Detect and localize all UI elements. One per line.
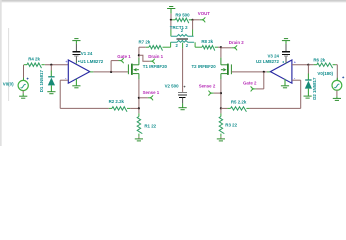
wire Drain 2 stub bbox=[221, 47, 234, 49]
pin Drain 2 bbox=[234, 46, 237, 50]
label T1 IRFBF20 bbox=[143, 64, 168, 69]
canvas edge line bbox=[8, 28, 10, 101]
battery V2 plus mark bbox=[184, 86, 186, 88]
wire V5 bottom lead bbox=[336, 90, 338, 98]
wire ground to V1 bbox=[75, 41, 77, 51]
op-amp U1 bbox=[65, 60, 90, 83]
wire U2 feedback vertical bbox=[300, 80, 302, 108]
wire T2 drain down bbox=[220, 47, 222, 57]
resistor R5 bbox=[221, 107, 301, 112]
junction Sense 1 bbox=[138, 97, 140, 99]
svg-text:D1 1N5817: D1 1N5817 bbox=[39, 70, 44, 93]
svg-text:R8 2k: R8 2k bbox=[201, 39, 213, 44]
svg-text:Gate 2: Gate 2 bbox=[243, 81, 257, 86]
svg-text:T1 IRFBF20: T1 IRFBF20 bbox=[143, 64, 168, 69]
pin Gate 1 bbox=[121, 58, 124, 62]
label R7 2k bbox=[139, 39, 151, 44]
source V0 sine mark bbox=[21, 84, 26, 88]
ground under U2 bbox=[281, 86, 289, 88]
junction Drain 1 bbox=[138, 54, 140, 56]
svg-text:V1 24: V1 24 bbox=[81, 51, 93, 56]
svg-text:R4 2k: R4 2k bbox=[28, 56, 40, 61]
pin VOUT bbox=[202, 18, 205, 22]
label Drain 2 bbox=[229, 40, 244, 45]
label TRCT1 bbox=[170, 25, 188, 30]
label Drain 1 bbox=[148, 54, 163, 59]
junction R2/R1/source bbox=[138, 107, 140, 109]
wire U2 -in bbox=[292, 79, 301, 81]
svg-text:+: + bbox=[65, 60, 67, 64]
wire center tap bbox=[182, 43, 184, 92]
label VOUT bbox=[198, 11, 211, 16]
junction Drain 2 bbox=[220, 46, 222, 48]
label R2 2.2k bbox=[109, 99, 125, 104]
ground under V5 bbox=[333, 98, 341, 100]
label R8 2k bbox=[201, 39, 213, 44]
svg-text:Gate 1: Gate 1 bbox=[117, 54, 131, 59]
transformer core bbox=[177, 38, 189, 39]
svg-text:R5 2.2k: R5 2.2k bbox=[231, 100, 247, 105]
label V2 500 bbox=[165, 84, 179, 89]
svg-text:R9 500: R9 500 bbox=[175, 12, 190, 17]
window top edge bbox=[0, 0, 346, 3]
resistor R7 bbox=[139, 46, 171, 51]
label bottom winding 2 right bbox=[186, 43, 189, 48]
wire V0 bottom lead bbox=[22, 91, 24, 96]
resistor R8 bbox=[195, 46, 221, 51]
label top winding 2 bbox=[181, 28, 184, 33]
wire T2 source down bbox=[220, 79, 222, 108]
label Sense 1 bbox=[143, 90, 160, 95]
label Sense 2 bbox=[199, 84, 216, 89]
label D2 1N5817 bbox=[312, 77, 317, 100]
wire Sense 2 stub bbox=[211, 92, 221, 94]
ground above V3 bbox=[282, 39, 290, 41]
pin Drain 1 bbox=[152, 59, 155, 63]
svg-text:V2 500: V2 500 bbox=[165, 84, 179, 89]
resistor R2 bbox=[60, 107, 139, 112]
svg-text:VOUT: VOUT bbox=[198, 11, 211, 16]
wire Sense 1 stub bbox=[139, 97, 150, 99]
wire U1 feedback vertical bbox=[59, 80, 61, 108]
wire U1 -in bbox=[60, 79, 68, 81]
svg-text:Drain 2: Drain 2 bbox=[229, 40, 244, 45]
wire U1 V- to ground bbox=[75, 79, 77, 86]
label R5 2.2k bbox=[231, 100, 247, 105]
svg-text:TRCT1 2: TRCT1 2 bbox=[170, 25, 188, 30]
svg-text:R2 2.2k: R2 2.2k bbox=[109, 99, 125, 104]
battery V1 bbox=[72, 51, 80, 57]
label R9 500 bbox=[175, 12, 190, 17]
junction Gate 1 branch bbox=[110, 71, 112, 73]
wire T1 drain up bbox=[138, 47, 140, 57]
label U1 LM8272 bbox=[78, 59, 104, 64]
pin Sense 2 bbox=[209, 91, 212, 95]
wire Drain 1 stub bbox=[139, 55, 152, 61]
junction R4/D1 bbox=[50, 64, 52, 66]
window left edge bbox=[0, 0, 2, 146]
ground under R3 bbox=[217, 139, 225, 141]
transformer TRCT1 bottom winding bbox=[171, 41, 195, 43]
resistor R4 bbox=[24, 63, 45, 68]
wire junction to D1 bbox=[50, 65, 52, 77]
label D1 1N5817 bbox=[39, 70, 44, 93]
label R3 22 bbox=[225, 122, 237, 127]
ground above transformer bbox=[167, 7, 175, 9]
wire R4 to U1 +in bbox=[45, 64, 68, 66]
label V0(0) bbox=[3, 82, 14, 87]
wire Gate 1 branch bbox=[111, 61, 121, 72]
label R6 2k bbox=[313, 57, 325, 62]
ground under V0 bbox=[19, 96, 27, 98]
label R4 2k bbox=[28, 56, 40, 61]
wire T1 source down bbox=[138, 79, 140, 108]
svg-text:R7 2k: R7 2k bbox=[139, 39, 151, 44]
label T2 IRFBF20 bbox=[192, 64, 217, 69]
junction R9 right bbox=[192, 19, 194, 21]
wire bottom winding left end bbox=[170, 42, 172, 47]
svg-text:Sense 2: Sense 2 bbox=[199, 84, 216, 89]
wire V2 to ground bbox=[182, 98, 184, 108]
wire VOUT stub bbox=[193, 19, 203, 21]
resistor R3 bbox=[219, 108, 224, 138]
resistor R9 bbox=[171, 18, 193, 23]
label R1 22 bbox=[144, 123, 156, 128]
wire bottom winding right end bbox=[194, 42, 196, 47]
svg-text:D2 1N5817: D2 1N5817 bbox=[312, 77, 317, 100]
ground under U1 bbox=[72, 86, 80, 88]
transformer TRCT1 top winding bbox=[171, 35, 194, 37]
wire V0 top lead bbox=[23, 65, 25, 81]
wire junction to D2 bbox=[307, 65, 309, 80]
op-amp U2 bbox=[270, 60, 296, 83]
junction R5/R3/source bbox=[220, 107, 222, 109]
wire ground to R9 rail bbox=[170, 9, 172, 20]
label Gate 1 bbox=[117, 54, 131, 59]
junction Gate 2 branch bbox=[263, 71, 265, 73]
label V0(180) bbox=[317, 71, 333, 76]
wire V1 to U1 V+ bbox=[75, 56, 77, 63]
svg-text:R3 22: R3 22 bbox=[225, 122, 237, 127]
svg-text:V3 24: V3 24 bbox=[268, 53, 280, 58]
svg-text:Sense 1: Sense 1 bbox=[143, 90, 160, 95]
junction R6/D2 bbox=[307, 64, 309, 66]
wire U2 +in bbox=[292, 64, 309, 66]
transistor T1 bbox=[128, 58, 139, 80]
source V0 plus mark bbox=[27, 78, 29, 80]
svg-text:U2 LM8272: U2 LM8272 bbox=[256, 59, 279, 64]
junction R9 left bbox=[170, 19, 172, 21]
source V5 sine mark bbox=[334, 84, 339, 88]
ground under V2 bbox=[179, 108, 187, 110]
wire U2 output to gate bbox=[231, 71, 270, 73]
svg-text:Drain 1: Drain 1 bbox=[148, 54, 163, 59]
wire R6 to V5 bbox=[336, 65, 338, 81]
resistor R1 bbox=[137, 108, 142, 138]
svg-text:R1 22: R1 22 bbox=[144, 123, 156, 128]
wire primary right vertical bbox=[192, 20, 194, 37]
resistor R6 bbox=[308, 63, 337, 68]
wire U2 V- to ground bbox=[284, 79, 286, 86]
svg-text:U1 LM8272: U1 LM8272 bbox=[80, 59, 103, 64]
diode D1 bbox=[48, 77, 55, 92]
svg-text:V0(180): V0(180) bbox=[317, 71, 333, 76]
label U2 LM8272 bbox=[256, 59, 284, 64]
battery V3 bbox=[282, 51, 290, 57]
diode D2 bbox=[305, 80, 312, 96]
wire ground to V3 bbox=[285, 41, 287, 51]
wire Gate 2 branch bbox=[254, 72, 264, 89]
pin Gate 2 bbox=[251, 87, 254, 91]
label Gate 2 bbox=[243, 81, 257, 86]
junction Sense 2 bbox=[220, 92, 222, 94]
wire V3 to U2 V+ bbox=[285, 56, 287, 63]
label V1 24 bbox=[81, 51, 93, 56]
ground under D1 bbox=[47, 92, 55, 94]
wire U1 output bbox=[90, 71, 128, 73]
svg-text:R6 2k: R6 2k bbox=[313, 57, 325, 62]
transistor T2 bbox=[221, 58, 232, 80]
wire primary left vertical bbox=[170, 20, 172, 37]
svg-text:V0(0): V0(0) bbox=[3, 82, 14, 87]
pin Sense 1 bbox=[150, 96, 153, 100]
ground above V1 bbox=[72, 39, 80, 41]
label bottom winding 2 left bbox=[176, 43, 179, 48]
source V5 plus mark bbox=[342, 76, 344, 78]
source V5 circle bbox=[332, 80, 342, 90]
source V0 circle bbox=[18, 80, 28, 90]
ground under D2 bbox=[304, 96, 312, 98]
svg-text:T2 IRFBF20: T2 IRFBF20 bbox=[192, 64, 217, 69]
ground under R1 bbox=[135, 139, 143, 141]
label V3 24 bbox=[268, 53, 280, 58]
svg-text:+: + bbox=[294, 61, 296, 65]
battery V2 bbox=[178, 92, 187, 98]
